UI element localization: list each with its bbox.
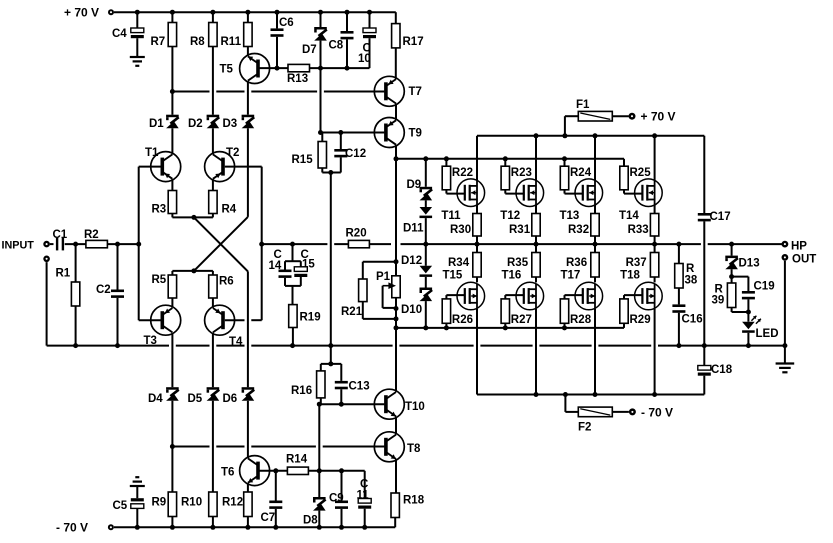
svg-text:D4: D4 — [148, 393, 163, 405]
svg-text:T10: T10 — [405, 401, 425, 413]
svg-text:R12: R12 — [222, 497, 243, 509]
svg-text:R35: R35 — [507, 257, 529, 269]
svg-text:10: 10 — [358, 53, 371, 65]
svg-text:R18: R18 — [403, 495, 425, 507]
svg-text:R2: R2 — [84, 229, 99, 241]
svg-text:R25: R25 — [630, 167, 652, 179]
svg-text:C6: C6 — [279, 17, 294, 29]
svg-text:T15: T15 — [443, 270, 463, 282]
svg-text:C7: C7 — [261, 512, 276, 524]
svg-text:F2: F2 — [578, 422, 591, 434]
svg-text:R34: R34 — [448, 257, 470, 269]
svg-text:T2: T2 — [226, 147, 239, 159]
svg-text:INPUT: INPUT — [2, 240, 35, 252]
svg-text:R37: R37 — [626, 257, 647, 269]
svg-text:R: R — [686, 263, 695, 275]
svg-text:R7: R7 — [151, 36, 166, 48]
svg-text:C12: C12 — [345, 148, 366, 160]
svg-text:+ 70 V: + 70 V — [64, 6, 99, 20]
svg-text:R24: R24 — [570, 167, 592, 179]
svg-text:R19: R19 — [300, 312, 321, 324]
svg-text:T12: T12 — [500, 210, 520, 222]
svg-text:+ 70 V: + 70 V — [641, 110, 676, 124]
svg-text:F1: F1 — [576, 99, 590, 111]
svg-text:D6: D6 — [223, 393, 238, 405]
svg-text:LED: LED — [756, 328, 779, 340]
svg-text:- 70 V: - 70 V — [56, 521, 88, 535]
svg-text:R28: R28 — [570, 314, 592, 326]
svg-text:T6: T6 — [221, 467, 234, 479]
svg-text:T8: T8 — [407, 443, 421, 455]
svg-text:HP: HP — [791, 241, 807, 253]
svg-text:R23: R23 — [511, 167, 532, 179]
svg-text:R36: R36 — [566, 257, 587, 269]
svg-text:R21: R21 — [341, 306, 363, 318]
svg-text:T5: T5 — [220, 64, 234, 76]
svg-text:R4: R4 — [222, 204, 237, 216]
svg-text:R16: R16 — [291, 385, 312, 397]
svg-text:R11: R11 — [221, 36, 242, 48]
svg-text:T14: T14 — [619, 210, 639, 222]
svg-text:R15: R15 — [292, 154, 314, 166]
svg-text:38: 38 — [685, 275, 698, 287]
svg-text:R6: R6 — [219, 276, 234, 288]
svg-text:D9: D9 — [407, 179, 422, 191]
svg-text:C4: C4 — [112, 28, 127, 40]
svg-text:14: 14 — [269, 260, 282, 272]
svg-text:T16: T16 — [502, 270, 522, 282]
svg-text:D13: D13 — [739, 258, 760, 270]
svg-text:C13: C13 — [349, 381, 370, 393]
svg-text:R8: R8 — [190, 36, 205, 48]
svg-text:C2: C2 — [96, 284, 111, 296]
svg-text:C16: C16 — [682, 314, 703, 326]
svg-text:T18: T18 — [620, 270, 640, 282]
svg-text:OUT: OUT — [792, 254, 816, 266]
svg-text:D2: D2 — [188, 118, 203, 130]
svg-text:T11: T11 — [441, 210, 461, 222]
svg-text:15: 15 — [302, 259, 315, 271]
svg-text:C17: C17 — [710, 211, 731, 223]
svg-text:R13: R13 — [287, 73, 308, 85]
svg-text:R30: R30 — [450, 224, 471, 236]
svg-text:D3: D3 — [223, 118, 238, 130]
svg-text:R31: R31 — [509, 224, 531, 236]
svg-text:R32: R32 — [568, 224, 589, 236]
svg-text:R20: R20 — [346, 228, 367, 240]
svg-text:11: 11 — [357, 490, 370, 502]
svg-text:R5: R5 — [152, 274, 167, 286]
svg-text:R26: R26 — [452, 314, 473, 326]
svg-text:39: 39 — [712, 295, 725, 307]
svg-text:C1: C1 — [53, 229, 68, 241]
svg-text:T7: T7 — [409, 86, 422, 98]
svg-text:R1: R1 — [56, 268, 71, 280]
svg-text:D10: D10 — [401, 304, 422, 316]
svg-text:R3: R3 — [152, 204, 167, 216]
svg-text:C18: C18 — [711, 364, 733, 376]
svg-text:C8: C8 — [329, 40, 344, 52]
svg-text:- 70 V: - 70 V — [641, 406, 673, 420]
svg-text:R29: R29 — [630, 314, 651, 326]
svg-text:T1: T1 — [145, 147, 159, 159]
svg-text:T13: T13 — [560, 210, 580, 222]
svg-text:D1: D1 — [149, 118, 164, 130]
svg-text:T9: T9 — [409, 128, 422, 140]
svg-text:C19: C19 — [754, 281, 775, 293]
svg-text:C5: C5 — [113, 500, 128, 512]
svg-text:D11: D11 — [403, 223, 424, 235]
svg-text:R22: R22 — [452, 167, 473, 179]
svg-text:R10: R10 — [181, 497, 202, 509]
svg-text:R17: R17 — [403, 36, 424, 48]
svg-text:D12: D12 — [401, 255, 422, 267]
svg-text:R27: R27 — [511, 314, 532, 326]
svg-text:D8: D8 — [303, 515, 318, 527]
svg-text:T17: T17 — [561, 270, 581, 282]
svg-text:D7: D7 — [302, 44, 317, 56]
svg-text:R14: R14 — [286, 454, 308, 466]
svg-text:R9: R9 — [152, 497, 167, 509]
svg-text:R33: R33 — [628, 224, 649, 236]
svg-text:D5: D5 — [188, 393, 203, 405]
svg-text:C9: C9 — [329, 493, 344, 505]
svg-text:P1: P1 — [376, 271, 391, 283]
